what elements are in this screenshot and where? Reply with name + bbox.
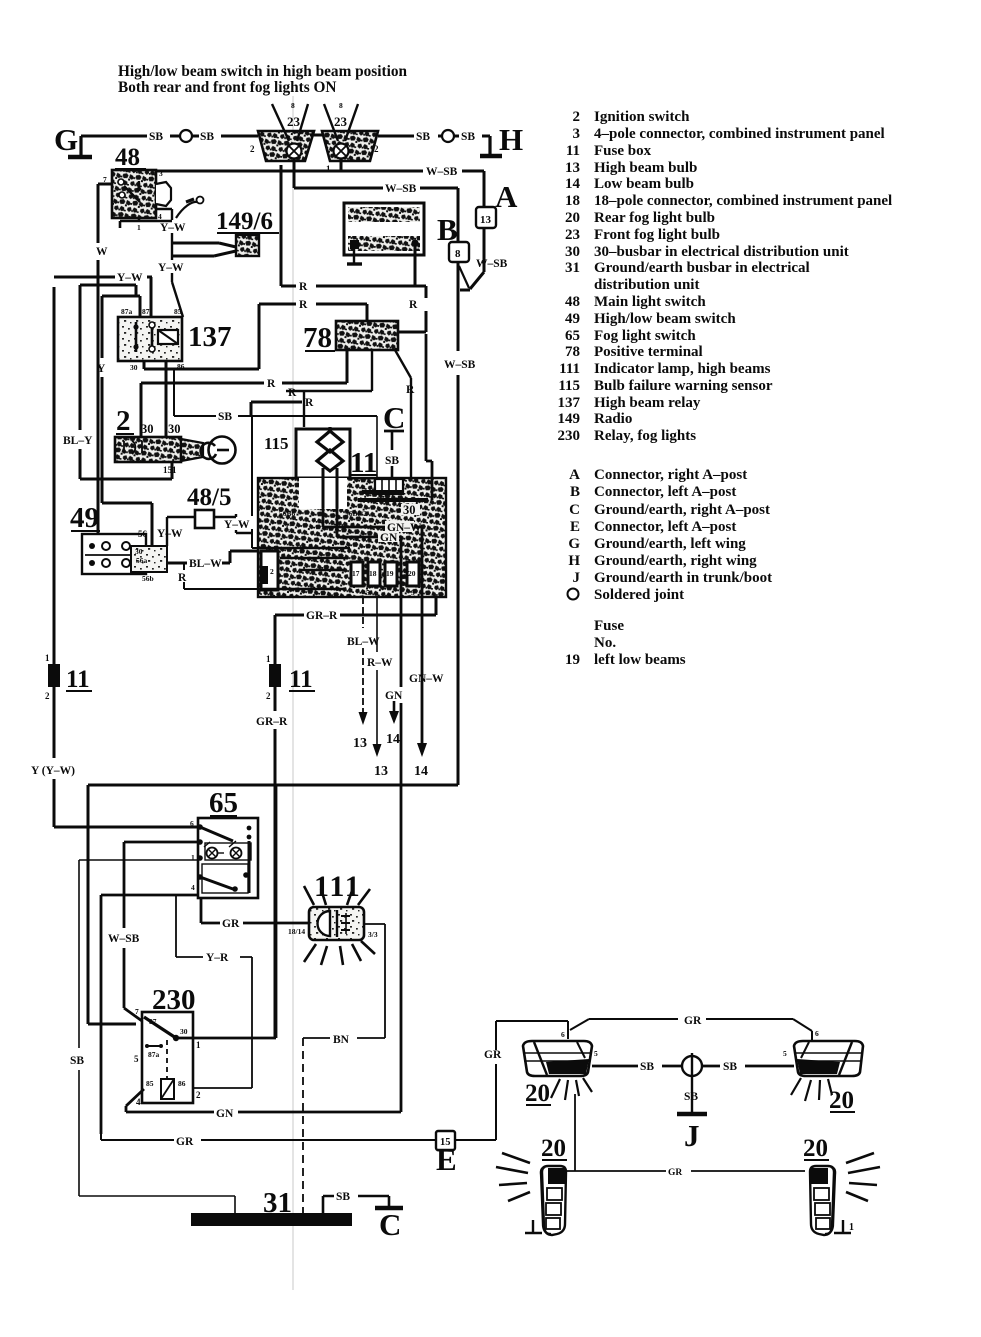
svg-text:GR: GR xyxy=(668,1168,682,1178)
svg-text:48: 48 xyxy=(565,294,580,310)
relay fog lights 230 xyxy=(134,984,201,1107)
svg-text:30: 30 xyxy=(180,1027,188,1036)
svg-text:R: R xyxy=(288,387,297,399)
high beam relay 137 xyxy=(118,307,232,372)
svg-text:Ground/earth busbar in electri: Ground/earth busbar in electrical xyxy=(594,260,810,276)
svg-text:R: R xyxy=(409,299,418,311)
svg-text:149: 149 xyxy=(558,411,581,427)
tiny terminal labels inside unit xyxy=(279,509,367,532)
svg-text:20: 20 xyxy=(525,1080,550,1107)
svg-text:R: R xyxy=(178,572,187,584)
svg-text:Ground/earth, right A–post: Ground/earth, right A–post xyxy=(594,502,770,518)
wire GR from 65 to indicator lamp xyxy=(201,898,309,930)
wire R net: bulb pin1 to 78 xyxy=(281,165,426,332)
wire from right bulb socket down xyxy=(340,159,343,171)
wire BL-W arrow 13 from unit xyxy=(347,597,380,751)
svg-text:1: 1 xyxy=(266,654,271,664)
svg-text:48: 48 xyxy=(115,144,140,171)
svg-text:3: 3 xyxy=(411,588,415,597)
svg-text:GR: GR xyxy=(484,1049,502,1061)
svg-text:2: 2 xyxy=(270,567,274,576)
svg-text:86: 86 xyxy=(178,1079,186,1088)
wire R net2: 78 top to 137 xyxy=(259,299,367,369)
svg-text:87: 87 xyxy=(142,307,150,316)
wire SB between rear fogs with joint J xyxy=(592,1061,794,1073)
svg-text:14: 14 xyxy=(386,732,400,747)
svg-text:A: A xyxy=(495,179,518,214)
svg-text:R–W: R–W xyxy=(367,657,393,669)
connector 3 in distribution unit xyxy=(375,479,403,494)
svg-text:H: H xyxy=(568,553,580,569)
label 11 (distribution) xyxy=(350,447,377,479)
svg-text:48/5: 48/5 xyxy=(187,484,231,511)
ground C (bottom) xyxy=(323,1191,403,1242)
wire GR from E up to rear fogs xyxy=(455,1021,568,1140)
svg-text:14: 14 xyxy=(565,176,581,192)
svg-text:Both rear and front fog lights: Both rear and front fog lights ON xyxy=(118,79,336,96)
horizontal feed bus xyxy=(88,784,458,787)
rear fog light bulb 20 (right) xyxy=(783,1029,863,1114)
svg-text:8: 8 xyxy=(291,101,295,110)
svg-text:Connector, left A–post: Connector, left A–post xyxy=(594,484,736,500)
svg-text:18: 18 xyxy=(565,193,580,209)
svg-text:BL–W: BL–W xyxy=(347,636,380,648)
svg-text:56b: 56b xyxy=(142,574,154,583)
svg-text:GR–R: GR–R xyxy=(256,716,288,728)
svg-text:Relay, fog lights: Relay, fog lights xyxy=(594,428,696,444)
wire GN-W inside unit xyxy=(323,508,444,779)
svg-text:13: 13 xyxy=(565,160,580,176)
svg-text:4: 4 xyxy=(191,883,195,892)
svg-text:18/14: 18/14 xyxy=(288,927,305,936)
wires into 65 left xyxy=(124,841,198,844)
wire Y-W horizontal from left bus xyxy=(54,272,152,317)
svg-text:Indicator lamp, high beams: Indicator lamp, high beams xyxy=(594,361,771,377)
wire W-SB bus down to 230 xyxy=(108,842,142,1021)
svg-text:111: 111 xyxy=(314,870,362,903)
bulb failure warning sensor 115 xyxy=(264,427,350,509)
svg-text:High beam bulb: High beam bulb xyxy=(594,160,697,176)
svg-text:6: 6 xyxy=(561,1030,565,1039)
wire Y into 137 xyxy=(97,296,140,503)
svg-text:20: 20 xyxy=(565,210,580,226)
svg-text:W–SB: W–SB xyxy=(108,933,140,945)
svg-text:11: 11 xyxy=(66,666,90,693)
wire Y into 49 xyxy=(102,503,183,546)
svg-text:G: G xyxy=(54,122,78,157)
wire SB from G to front fog bulbs xyxy=(81,131,258,143)
switch 48/5 xyxy=(187,484,231,528)
svg-text:5: 5 xyxy=(594,1049,598,1058)
svg-text:Ground/earth, right wing: Ground/earth, right wing xyxy=(594,553,757,569)
svg-text:Y (Y–W): Y (Y–W) xyxy=(31,765,75,777)
high/low beam switch 49 xyxy=(70,502,167,583)
svg-text:SB: SB xyxy=(149,131,163,143)
svg-text:19: 19 xyxy=(386,569,394,578)
svg-text:87a: 87a xyxy=(148,1050,160,1059)
svg-text:SB: SB xyxy=(200,131,214,143)
front fog light 20 (left) xyxy=(496,1094,575,1235)
svg-text:Front fog light bulb: Front fog light bulb xyxy=(594,227,720,243)
svg-text:Y–W: Y–W xyxy=(157,528,183,540)
svg-text:2: 2 xyxy=(250,144,255,154)
indicator lamp 111 xyxy=(288,870,378,965)
svg-text:R: R xyxy=(267,378,276,390)
svg-text:85: 85 xyxy=(174,307,182,316)
svg-text:R: R xyxy=(299,299,308,311)
svg-text:6: 6 xyxy=(815,1029,819,1038)
wire Y(Y-W) below left fuse to 65 xyxy=(31,687,198,827)
svg-text:High beam relay: High beam relay xyxy=(594,395,701,411)
svg-text:11: 11 xyxy=(566,143,580,159)
svg-text:30: 30 xyxy=(135,547,143,556)
svg-text:18–pole connector, combined in: 18–pole connector, combined instrument p… xyxy=(594,193,892,209)
svg-text:78: 78 xyxy=(303,322,332,354)
soldered joint at J xyxy=(682,1053,702,1113)
SB wire from ignition region down to 49 xyxy=(174,369,377,423)
svg-text:BL–W: BL–W xyxy=(189,558,222,570)
wire from 48/5 left to 49 xyxy=(167,517,195,546)
wire GR bottom: from left bus to connector E xyxy=(101,1134,436,1148)
svg-text:1: 1 xyxy=(137,223,141,232)
svg-text:1: 1 xyxy=(196,1040,201,1050)
positive terminal 78 xyxy=(303,321,398,354)
fuse 11 (left) xyxy=(45,287,92,701)
wire between bulbs xyxy=(310,134,324,137)
wire from 137 pin30 xyxy=(144,361,259,369)
svg-text:W–SB: W–SB xyxy=(426,166,458,178)
wire GR from 65 pin4 xyxy=(101,895,198,1134)
connector A label xyxy=(495,179,518,214)
connector B box 8 xyxy=(449,242,469,262)
wire W: 48 pin7 to 49 xyxy=(96,184,112,534)
soldered joint (left) xyxy=(180,130,192,142)
svg-text:SB: SB xyxy=(461,131,475,143)
svg-text:30: 30 xyxy=(403,503,416,517)
svg-text:5: 5 xyxy=(783,1049,787,1058)
svg-text:left low beams: left low beams xyxy=(594,652,686,668)
svg-text:Low beam bulb: Low beam bulb xyxy=(594,176,694,192)
svg-text:E: E xyxy=(436,1142,457,1177)
svg-text:GN–W: GN–W xyxy=(409,673,444,685)
fog light switch 65 xyxy=(190,787,258,898)
svg-text:High/low beam switch: High/low beam switch xyxy=(594,311,736,327)
svg-text:Fog light switch: Fog light switch xyxy=(594,328,696,344)
svg-text:4: 4 xyxy=(136,1097,141,1107)
svg-text:GN: GN xyxy=(385,690,403,702)
svg-text:19: 19 xyxy=(565,652,580,668)
svg-text:SB: SB xyxy=(70,1055,84,1067)
svg-text:230: 230 xyxy=(558,428,581,444)
svg-text:151: 151 xyxy=(163,465,177,475)
thin wire R-W long drop with arrow 13 xyxy=(367,416,393,779)
svg-text:Bulb failure warning sensor: Bulb failure warning sensor xyxy=(594,378,773,394)
svg-text:18: 18 xyxy=(369,569,377,578)
soldered joint (right) xyxy=(442,130,454,142)
svg-text:SB: SB xyxy=(336,1191,350,1203)
svg-text:No.: No. xyxy=(594,635,616,651)
wire BN from lamp to busbar xyxy=(303,924,385,1213)
svg-text:Radio: Radio xyxy=(594,411,632,427)
svg-text:Connector, right A–post: Connector, right A–post xyxy=(594,467,747,483)
svg-text:A: A xyxy=(569,467,580,483)
svg-text:87a: 87a xyxy=(121,307,133,316)
svg-text:SB: SB xyxy=(684,1091,698,1103)
arrow 14 (low beam) xyxy=(386,701,400,747)
svg-text:30: 30 xyxy=(141,422,154,436)
svg-text:5: 5 xyxy=(366,588,370,597)
wire R short row xyxy=(251,397,318,416)
scan fold artifact xyxy=(292,96,294,1290)
svg-text:56a: 56a xyxy=(136,556,148,565)
svg-text:Y–W: Y–W xyxy=(224,519,250,531)
svg-text:Ignition switch: Ignition switch xyxy=(594,109,690,125)
svg-text:7: 7 xyxy=(135,1007,139,1016)
svg-text:R: R xyxy=(299,281,308,293)
ground H (right wing) xyxy=(480,122,523,157)
svg-text:23: 23 xyxy=(287,114,301,129)
ignition switch 2 xyxy=(115,405,236,475)
svg-text:30: 30 xyxy=(168,422,181,436)
wire from 230 pin30 to feed xyxy=(179,785,276,1038)
svg-text:30–busbar in electrical distri: 30–busbar in electrical distribution uni… xyxy=(594,244,849,260)
svg-text:8: 8 xyxy=(339,101,343,110)
rear fog light bulb 20 (left) xyxy=(523,1030,598,1107)
wire R: 78 to ignition 2 xyxy=(141,350,347,437)
svg-text:SB: SB xyxy=(385,455,399,467)
svg-text:W–SB: W–SB xyxy=(476,258,508,270)
dimmer symbol next to 48 xyxy=(176,197,204,219)
svg-text:86: 86 xyxy=(177,362,185,371)
svg-text:1: 1 xyxy=(45,653,50,663)
svg-text:137: 137 xyxy=(188,321,232,353)
main W-SB vertical xyxy=(444,262,476,785)
svg-text:2: 2 xyxy=(196,1090,201,1100)
ground C (right A-post, top) xyxy=(383,400,405,478)
svg-text:GR: GR xyxy=(684,1015,702,1027)
svg-text:SB: SB xyxy=(218,411,232,423)
wire Y-R from 65 to 230 xyxy=(176,895,252,1088)
wire GN from 230 to fog circuit xyxy=(126,1089,401,1120)
svg-text:2: 2 xyxy=(116,405,131,437)
svg-text:GN: GN xyxy=(380,532,398,544)
wires inside unit lower xyxy=(258,548,350,589)
svg-text:20: 20 xyxy=(803,1135,828,1162)
svg-text:distribution unit: distribution unit xyxy=(594,277,699,293)
svg-text:BL–Y: BL–Y xyxy=(63,435,93,447)
svg-text:2: 2 xyxy=(374,144,379,154)
svg-text:149/6: 149/6 xyxy=(216,208,273,235)
wire jog right of C xyxy=(426,334,432,500)
radio connector 149/6 xyxy=(216,208,279,256)
connector B label xyxy=(437,212,458,247)
fuse 11 (middle) xyxy=(266,664,315,701)
svg-text:Y–W: Y–W xyxy=(117,272,143,284)
connector row in unit xyxy=(261,551,419,597)
ground J (trunk) xyxy=(677,1091,707,1153)
svg-text:SB: SB xyxy=(723,1061,737,1073)
svg-text:J: J xyxy=(684,1118,700,1153)
svg-text:78: 78 xyxy=(565,344,580,360)
svg-text:87: 87 xyxy=(149,1017,157,1026)
svg-text:65: 65 xyxy=(565,328,580,344)
svg-text:Ground/earth, left wing: Ground/earth, left wing xyxy=(594,536,746,552)
ground G (left wing) xyxy=(54,122,92,157)
electrical distribution unit (fuse box 11) xyxy=(258,478,446,597)
svg-text:4–pole connector, combined ins: 4–pole connector, combined instrument pa… xyxy=(594,126,885,142)
svg-text:Y–R: Y–R xyxy=(206,952,229,964)
svg-text:Soldered joint: Soldered joint xyxy=(594,587,684,603)
wire R: 78 diagonal to distribution box xyxy=(395,350,415,500)
connector E box 15 xyxy=(436,1131,457,1177)
svg-text:13: 13 xyxy=(353,736,367,751)
svg-text:R: R xyxy=(406,384,415,396)
svg-text:1: 1 xyxy=(849,1222,854,1233)
title xyxy=(118,63,407,96)
svg-text:3/3: 3/3 xyxy=(368,930,378,939)
radio 149 xyxy=(344,203,424,264)
front fog light 20 (right) xyxy=(803,1135,880,1235)
wire to 149/6 lower xyxy=(172,251,236,256)
svg-text:R: R xyxy=(305,397,314,409)
wire R: radio to bus xyxy=(414,246,417,286)
front fog light bulb 23 (right) xyxy=(322,101,379,174)
wire from 48/5 right down xyxy=(214,514,252,533)
svg-text:115: 115 xyxy=(264,434,289,453)
svg-text:Rear fog light bulb: Rear fog light bulb xyxy=(594,210,715,226)
svg-text:20: 20 xyxy=(408,569,416,578)
svg-text:Positive terminal: Positive terminal xyxy=(594,344,703,360)
wire to 149/6 upper xyxy=(172,243,236,247)
svg-text:Y–W: Y–W xyxy=(158,262,184,274)
svg-text:C: C xyxy=(569,502,580,518)
svg-text:23: 23 xyxy=(334,114,348,129)
svg-text:4: 4 xyxy=(158,212,162,221)
svg-text:13: 13 xyxy=(480,214,492,226)
svg-text:8: 8 xyxy=(455,248,461,260)
svg-text:3: 3 xyxy=(159,169,163,178)
svg-text:137: 137 xyxy=(558,395,581,411)
svg-text:56B6: 56B6 xyxy=(279,509,296,518)
svg-text:E: E xyxy=(570,519,580,535)
svg-text:GN: GN xyxy=(216,1108,234,1120)
svg-text:65: 65 xyxy=(209,787,238,819)
busbar 30 inside unit xyxy=(358,492,428,517)
svg-text:56B8/2: 56B8/2 xyxy=(345,509,367,518)
svg-text:BN: BN xyxy=(333,1034,350,1046)
svg-text:Ground/earth in trunk/boot: Ground/earth in trunk/boot xyxy=(594,570,772,586)
svg-text:H: H xyxy=(499,122,523,157)
svg-text:Y–W: Y–W xyxy=(160,222,186,234)
wire GR top link between rear fogs xyxy=(570,1015,812,1042)
svg-text:Main light switch: Main light switch xyxy=(594,294,706,310)
svg-text:11: 11 xyxy=(289,666,313,693)
svg-text:W: W xyxy=(96,246,108,258)
wire R from 49 down to unit xyxy=(178,563,258,589)
front fog light bulb 23 (left) xyxy=(250,101,314,174)
wire SB from right bulb to H xyxy=(378,131,490,143)
svg-text:56: 56 xyxy=(138,529,148,539)
wire GR-R from unit to fuse and bus xyxy=(266,597,436,664)
svg-text:High/low beam switch in high b: High/low beam switch in high beam positi… xyxy=(118,63,407,80)
svg-text:GR–R: GR–R xyxy=(306,610,338,622)
svg-text:14: 14 xyxy=(414,764,428,779)
svg-text:GR: GR xyxy=(222,918,240,930)
svg-text:49: 49 xyxy=(70,502,99,534)
svg-text:SB: SB xyxy=(640,1061,654,1073)
svg-text:49: 49 xyxy=(565,311,580,327)
svg-text:Fuse: Fuse xyxy=(594,618,624,634)
svg-text:20: 20 xyxy=(541,1135,566,1162)
svg-text:Connector, left A–post: Connector, left A–post xyxy=(594,519,736,535)
svg-text:W–SB: W–SB xyxy=(385,183,417,195)
svg-text:J: J xyxy=(573,570,581,586)
svg-text:2: 2 xyxy=(573,109,581,125)
svg-text:20: 20 xyxy=(829,1087,854,1114)
wire W-SB lower: left bulb socket to connector B xyxy=(294,159,458,242)
svg-text:2: 2 xyxy=(45,691,50,701)
svg-text:5: 5 xyxy=(134,1054,139,1064)
wire GN inside unit xyxy=(337,508,403,1112)
svg-text:111: 111 xyxy=(559,361,580,377)
svg-text:C: C xyxy=(286,523,291,532)
ground busbar 31 xyxy=(191,1187,352,1226)
svg-text:115: 115 xyxy=(558,378,580,394)
wire BL-Y: ignition to left bus xyxy=(63,285,172,479)
svg-text:B: B xyxy=(570,484,580,500)
main light switch 48 xyxy=(103,144,172,232)
svg-text:C: C xyxy=(379,1207,401,1242)
thin wire SB from 65 to busbar xyxy=(70,860,235,1213)
LEGEND xyxy=(558,109,893,668)
svg-text:6: 6 xyxy=(190,819,194,828)
wire W-SB upper: 48 pin3 to connector A xyxy=(156,166,484,207)
svg-text:85: 85 xyxy=(146,1079,154,1088)
left bus down to 230 region xyxy=(88,785,136,1024)
wire R: 78 to 115 drop xyxy=(286,350,372,427)
svg-text:30: 30 xyxy=(565,244,580,260)
SB drop from ignition to distribution xyxy=(252,416,258,548)
svg-text:23: 23 xyxy=(565,227,580,243)
svg-text:G: G xyxy=(568,536,580,552)
svg-text:30: 30 xyxy=(130,363,138,372)
wire W-SB below connectors merging to main drop xyxy=(459,228,508,290)
connector A box 13 xyxy=(476,207,496,228)
svg-text:2: 2 xyxy=(266,691,271,701)
wire GR-R below fuse to bus xyxy=(256,687,288,1038)
svg-text:31: 31 xyxy=(565,260,580,276)
svg-text:Fuse box: Fuse box xyxy=(594,143,652,159)
svg-text:17: 17 xyxy=(352,569,360,578)
svg-text:Y: Y xyxy=(97,363,106,375)
svg-text:GR: GR xyxy=(176,1136,194,1148)
wire 137 pin86 to ignition 30 xyxy=(165,361,168,437)
wire BL-W from 49 to unit xyxy=(167,551,258,570)
wire Y-W: 48 pin4 down to 137 xyxy=(156,209,186,317)
svg-text:13: 13 xyxy=(374,764,388,779)
svg-text:SB: SB xyxy=(416,131,430,143)
wire GR between front fogs xyxy=(567,1168,805,1178)
svg-text:3: 3 xyxy=(573,126,581,142)
svg-text:W–SB: W–SB xyxy=(444,359,476,371)
